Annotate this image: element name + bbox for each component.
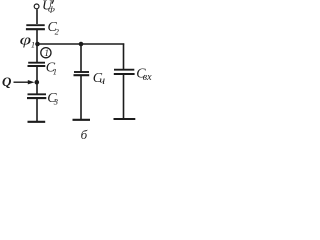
svg-text:вх: вх (143, 72, 152, 83)
svg-text:1: 1 (31, 39, 35, 49)
svg-text:1: 1 (44, 49, 49, 59)
svg-text:2: 2 (55, 27, 60, 37)
svg-text:б: б (81, 127, 88, 142)
svg-text:Q: Q (2, 74, 12, 89)
svg-text:1: 1 (53, 67, 57, 77)
svg-text:φ: φ (20, 31, 31, 48)
svg-text:ф: ф (48, 5, 55, 14)
svg-text:3: 3 (53, 97, 58, 107)
svg-text:ч: ч (99, 73, 105, 87)
